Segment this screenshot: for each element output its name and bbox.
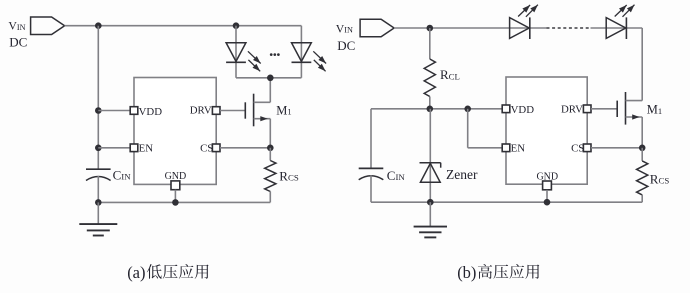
svg-text:DRV: DRV xyxy=(561,103,583,115)
svg-text:GND: GND xyxy=(536,171,558,182)
svg-text:(a): (a) xyxy=(127,263,145,282)
svg-text:(b): (b) xyxy=(457,263,476,282)
svg-text:DC: DC xyxy=(337,38,355,53)
svg-text:DC: DC xyxy=(9,35,27,50)
svg-text:GND: GND xyxy=(165,171,187,182)
svg-text:VDD: VDD xyxy=(139,106,163,118)
svg-text:CS: CS xyxy=(200,143,213,155)
svg-text:EN: EN xyxy=(139,143,154,155)
svg-text:DRV: DRV xyxy=(190,105,212,117)
svg-text:CS: CS xyxy=(571,143,584,155)
svg-text:VDD: VDD xyxy=(511,104,535,116)
svg-text:Zener: Zener xyxy=(446,167,478,182)
svg-text:EN: EN xyxy=(511,143,526,155)
